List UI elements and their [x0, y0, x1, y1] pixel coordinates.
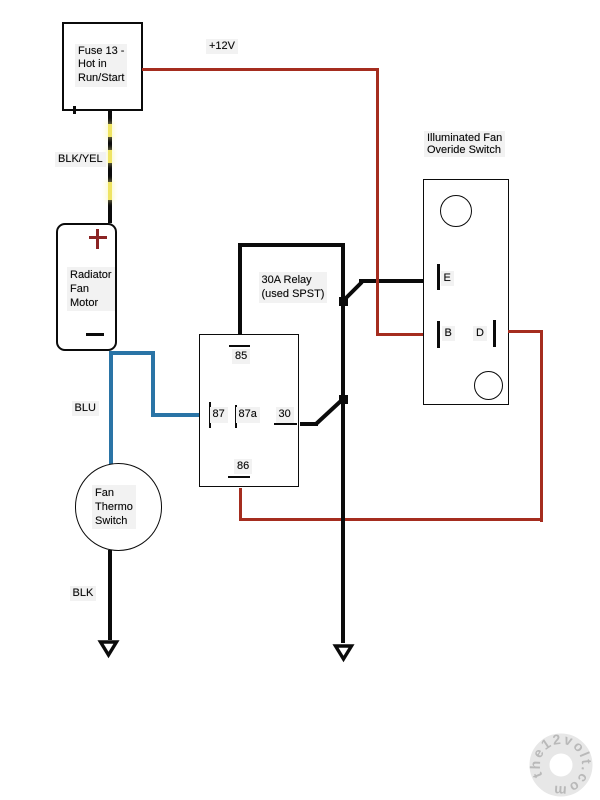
wire red from switch pin D to the right: [508, 330, 543, 333]
wire red up into relay pin 86: [239, 488, 242, 520]
switch pin D label: [473, 326, 487, 342]
wire BLU horizontal into relay pin 87: [151, 413, 206, 417]
yellow dash 2 on BLK/YEL wire: [108, 150, 112, 163]
wire from relay pin 85 up: [238, 245, 242, 334]
relay pin 30 bar: [274, 423, 297, 425]
motor minus terminal: [86, 333, 104, 336]
yellow dash 3 on BLK/YEL wire: [108, 182, 112, 200]
relay pin 85 label: [232, 349, 250, 365]
motor plus terminal (vertical bar): [96, 229, 99, 249]
wire diagonal pin30 to lower junction: [312, 396, 348, 429]
thermo switch circle: [75, 463, 163, 551]
ground symbol left (open triangle): [95, 637, 123, 661]
wire +12V feed to switch pin B: [377, 333, 424, 336]
wire diagonal junction to switch pin E: [335, 275, 370, 307]
wire main vertical down to ground: [341, 243, 345, 643]
fuse bottom stub tick: [73, 106, 76, 114]
wire BLK/YEL fuse to motor: [108, 111, 112, 223]
BLK wire label: [70, 586, 97, 602]
BLU wire label: [72, 401, 99, 417]
motor M1 box: [56, 223, 117, 351]
svg-text:the12volt.com: the12volt.com: [527, 731, 595, 800]
switch label "Illuminated Fan Overide Switch": [424, 131, 505, 158]
wire BLU motor down-branch (vertical to thermo switch): [109, 351, 113, 465]
BLK/YEL wire label: [55, 152, 106, 168]
motor plus terminal (horizontal bar): [89, 236, 107, 239]
switch pin E bar: [437, 264, 440, 290]
junction node lower: [339, 395, 348, 404]
switch pin B bar: [437, 321, 440, 348]
yellow dash 1 on BLK/YEL wire: [108, 124, 112, 137]
node +12V label: [206, 39, 238, 55]
wire BLU top horizontal segment: [109, 351, 155, 355]
relay pin 87 label: [210, 407, 228, 423]
relay pin 87a label: [236, 407, 260, 423]
fuse F13 box: [62, 22, 143, 111]
wire red right-side vertical drop: [540, 330, 543, 522]
watermark the12volt.com circular logo: [501, 705, 600, 800]
relay pin 86 label: [234, 459, 252, 475]
wire +12V horizontal from fuse to drop column: [142, 68, 379, 71]
wire BLU middle vertical segment: [151, 351, 155, 417]
ground symbol center (open triangle): [330, 641, 358, 665]
motor label "Radiator Fan Motor": [67, 267, 115, 312]
junction node upper: [339, 297, 348, 306]
wire +12V vertical drop: [376, 68, 379, 336]
relay pin 30 label: [276, 407, 294, 423]
relay pin 87 bar: [209, 402, 211, 428]
relay K1 box: [199, 334, 299, 487]
relay pin 86 bar: [228, 476, 250, 478]
switch pin E label: [441, 271, 454, 287]
relay label "30A Relay (used SPST)": [259, 272, 328, 303]
switch lamp circle top: [440, 195, 472, 227]
switch lamp circle bottom: [474, 371, 503, 400]
fuse F13 label "Fuse 13 - Hot in Run/Start": [75, 44, 127, 87]
relay pin 87a bar: [235, 405, 237, 428]
switch pin D bar: [493, 320, 496, 347]
wire top rail horizontal: [238, 243, 345, 247]
wire stub from relay pin 30: [300, 422, 318, 426]
relay pin 85 bar: [229, 345, 250, 347]
wire BLK thermo switch to ground: [108, 550, 112, 640]
wire red bottom horizontal run: [239, 518, 544, 521]
switch S1 box: [423, 179, 509, 405]
switch pin B label: [442, 326, 455, 342]
wire horizontal into switch pin E: [359, 279, 423, 283]
thermo switch label "Fan Thermo Switch": [92, 485, 136, 530]
